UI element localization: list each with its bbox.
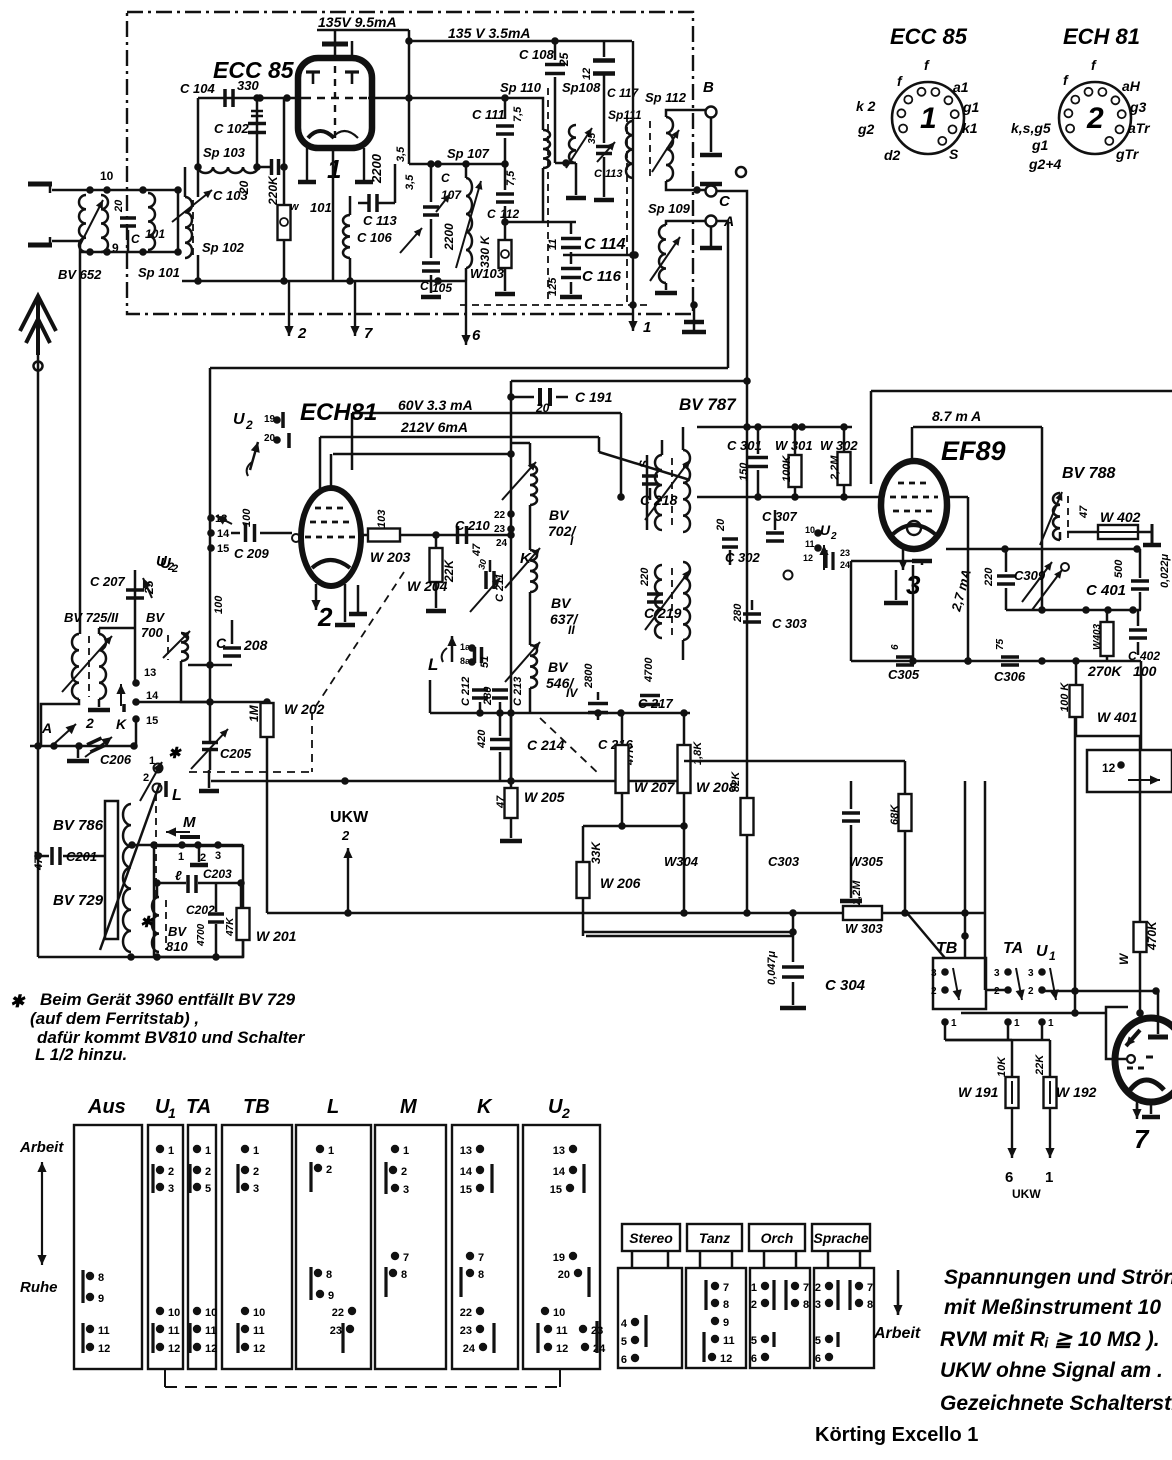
svg-text:8: 8 <box>867 1299 873 1311</box>
svg-text:BV 788: BV 788 <box>1062 465 1115 482</box>
svg-text:7: 7 <box>478 1252 484 1264</box>
svg-text:f: f <box>1063 72 1069 88</box>
svg-text:C: C <box>441 171 450 185</box>
svg-text:d2: d2 <box>884 147 901 163</box>
svg-text:C205: C205 <box>220 746 252 761</box>
svg-text:2: 2 <box>245 418 253 432</box>
svg-text:10: 10 <box>805 525 815 535</box>
svg-text:4: 4 <box>621 1318 628 1330</box>
svg-text:Sprache: Sprache <box>813 1230 868 1246</box>
svg-text:C 219: C 219 <box>644 605 682 621</box>
svg-text:C 103: C 103 <box>213 188 248 203</box>
svg-text:Sp 112: Sp 112 <box>645 90 687 105</box>
svg-text:10: 10 <box>553 1307 565 1319</box>
svg-text:W 205: W 205 <box>524 789 565 805</box>
svg-text:M: M <box>183 814 196 831</box>
svg-text:1: 1 <box>253 1145 259 1157</box>
svg-text:C 213: C 213 <box>512 677 524 706</box>
svg-text:C 217: C 217 <box>638 696 673 711</box>
svg-text:420: 420 <box>476 729 488 749</box>
svg-text:8: 8 <box>803 1299 809 1311</box>
svg-text:15: 15 <box>550 1184 562 1196</box>
svg-text:6: 6 <box>815 1353 821 1365</box>
svg-text:✱: ✱ <box>140 914 154 931</box>
svg-text:(auf dem Ferritstab) ,: (auf dem Ferritstab) , <box>30 1009 199 1028</box>
svg-text:220: 220 <box>639 567 651 587</box>
svg-text:1: 1 <box>1049 949 1056 963</box>
svg-text:f: f <box>897 73 903 89</box>
svg-text:3: 3 <box>215 850 221 862</box>
svg-text:5: 5 <box>205 1183 211 1195</box>
svg-text:47: 47 <box>471 543 483 557</box>
svg-text:C 111: C 111 <box>472 107 505 122</box>
svg-text:2: 2 <box>401 1166 407 1178</box>
svg-text:20: 20 <box>558 1269 570 1281</box>
svg-text:20: 20 <box>715 518 727 532</box>
svg-text:10: 10 <box>205 1307 217 1319</box>
svg-text:3: 3 <box>1028 968 1034 979</box>
svg-text:12: 12 <box>98 1343 110 1355</box>
svg-text:UKW: UKW <box>1012 1187 1041 1201</box>
svg-text:L 1/2 hinzu.: L 1/2 hinzu. <box>35 1045 127 1064</box>
svg-text:1: 1 <box>1045 1169 1053 1186</box>
svg-text:C 106: C 106 <box>357 230 392 245</box>
svg-text:C 307: C 307 <box>762 509 797 524</box>
svg-text:L: L <box>327 1096 339 1118</box>
svg-text:11: 11 <box>98 1325 110 1337</box>
svg-text:13: 13 <box>144 667 156 679</box>
svg-text:C303: C303 <box>768 854 800 869</box>
svg-text:2: 2 <box>297 325 307 342</box>
svg-text:12: 12 <box>720 1353 732 1365</box>
svg-text:8.7 m A: 8.7 m A <box>932 408 981 424</box>
svg-text:220: 220 <box>983 567 995 587</box>
svg-text:10K: 10K <box>996 1056 1008 1077</box>
svg-text:W103: W103 <box>470 266 505 281</box>
svg-text:C 108: C 108 <box>519 47 554 62</box>
svg-text:135V 9.5mA: 135V 9.5mA <box>318 14 397 30</box>
svg-text:2: 2 <box>317 602 333 632</box>
svg-text:35: 35 <box>587 132 598 144</box>
svg-text:1: 1 <box>1014 1018 1020 1029</box>
svg-text:47: 47 <box>1078 505 1090 519</box>
svg-text:M: M <box>400 1096 418 1118</box>
svg-text:U: U <box>233 411 245 428</box>
svg-text:1: 1 <box>920 102 937 135</box>
svg-text:68K: 68K <box>889 804 901 825</box>
svg-text:C 114: C 114 <box>584 236 626 253</box>
svg-text:2: 2 <box>85 715 94 731</box>
svg-text:Sp 102: Sp 102 <box>202 240 245 255</box>
svg-text:100K: 100K <box>781 455 793 482</box>
svg-text:101: 101 <box>310 200 332 215</box>
svg-text:W 207: W 207 <box>634 779 676 795</box>
svg-text:12: 12 <box>556 1343 568 1355</box>
svg-text:330 K: 330 K <box>478 235 492 268</box>
svg-text:3: 3 <box>994 968 1000 979</box>
svg-text:20: 20 <box>113 199 125 213</box>
svg-text:7,5: 7,5 <box>512 106 524 122</box>
svg-text:W 204: W 204 <box>407 578 448 594</box>
svg-text:U: U <box>820 522 831 538</box>
svg-text:B: B <box>703 79 714 96</box>
svg-text:C: C <box>719 193 731 210</box>
svg-text:60V 3.3 mA: 60V 3.3 mA <box>398 397 473 413</box>
svg-text:Beim Gerät 3960 entfällt BV 7: Beim Gerät 3960 entfällt BV 729 <box>40 990 296 1009</box>
svg-text:C 209: C 209 <box>234 546 269 561</box>
svg-text:7: 7 <box>803 1282 809 1294</box>
svg-text:12: 12 <box>205 1343 217 1355</box>
svg-text:C 304: C 304 <box>825 977 866 994</box>
svg-text:TA: TA <box>186 1096 211 1118</box>
svg-text:1: 1 <box>951 1018 957 1029</box>
svg-text:C 102: C 102 <box>214 121 249 136</box>
svg-text:Ruhe: Ruhe <box>20 1279 58 1296</box>
svg-text:2,2M: 2,2M <box>829 455 841 481</box>
svg-text:C 214: C 214 <box>527 737 565 753</box>
svg-text:12: 12 <box>581 68 593 80</box>
svg-text:33K: 33K <box>589 841 603 864</box>
svg-text:C 117: C 117 <box>607 86 639 100</box>
svg-text:a1: a1 <box>953 79 969 95</box>
svg-text:W305: W305 <box>849 854 884 869</box>
svg-text:10: 10 <box>168 1307 180 1319</box>
svg-text:C 104: C 104 <box>180 81 215 96</box>
svg-text:BV: BV <box>146 610 165 625</box>
svg-text:C201: C201 <box>66 849 97 864</box>
svg-text:13: 13 <box>460 1145 472 1157</box>
svg-text:100: 100 <box>241 508 253 527</box>
svg-text:6: 6 <box>472 327 481 344</box>
svg-text:4700: 4700 <box>643 657 655 683</box>
svg-text:w: w <box>290 201 300 213</box>
svg-text:4700: 4700 <box>196 923 207 947</box>
svg-text:C: C <box>131 232 140 246</box>
svg-text:EF89: EF89 <box>941 436 1006 466</box>
svg-text:Sp 107: Sp 107 <box>447 146 490 161</box>
svg-text:L: L <box>172 787 182 804</box>
svg-text:W 203: W 203 <box>370 549 411 565</box>
svg-text:12: 12 <box>168 1343 180 1355</box>
svg-text:0,047μ: 0,047μ <box>766 950 778 985</box>
svg-text:6: 6 <box>621 1354 627 1366</box>
svg-text:Sp 109: Sp 109 <box>648 201 691 216</box>
svg-text:W 206: W 206 <box>600 875 641 891</box>
svg-text:500: 500 <box>1113 559 1125 578</box>
svg-text:C 301: C 301 <box>727 438 762 453</box>
svg-text:6: 6 <box>751 1353 757 1365</box>
svg-text:TA: TA <box>1003 940 1023 957</box>
svg-text:BV: BV <box>168 924 187 939</box>
svg-text:2: 2 <box>751 1299 757 1311</box>
svg-text:208: 208 <box>243 637 268 653</box>
svg-text:47K: 47K <box>225 917 236 937</box>
svg-text:23: 23 <box>330 1325 342 1337</box>
svg-text:g2: g2 <box>857 121 875 137</box>
svg-text:12: 12 <box>253 1343 265 1355</box>
svg-text:125: 125 <box>547 277 559 296</box>
svg-text:2200: 2200 <box>369 153 384 184</box>
svg-text:25: 25 <box>557 52 571 67</box>
svg-text:C306: C306 <box>994 669 1026 684</box>
svg-text:2800: 2800 <box>583 663 595 689</box>
svg-text:Orch: Orch <box>761 1230 794 1246</box>
svg-text:W 401: W 401 <box>1097 709 1138 725</box>
svg-text:24: 24 <box>593 1343 606 1355</box>
svg-text:W403: W403 <box>1092 623 1103 650</box>
svg-text:2: 2 <box>326 1164 332 1176</box>
svg-text:24: 24 <box>463 1343 476 1355</box>
svg-text:Sp108: Sp108 <box>562 80 601 95</box>
svg-text:Sp111: Sp111 <box>608 108 642 122</box>
svg-text:IV: IV <box>566 686 578 700</box>
svg-text:13: 13 <box>553 1145 565 1157</box>
svg-text:W 191: W 191 <box>958 1084 999 1100</box>
svg-text:aTr: aTr <box>1128 120 1151 136</box>
svg-text:ℓ: ℓ <box>175 868 182 883</box>
svg-text:BV: BV <box>549 507 570 523</box>
svg-text:11: 11 <box>253 1325 265 1337</box>
svg-text:BV 786: BV 786 <box>53 817 104 834</box>
svg-text:2,7 mA: 2,7 mA <box>948 568 974 614</box>
svg-text:212V 6mA: 212V 6mA <box>400 419 468 435</box>
svg-text:9: 9 <box>328 1290 334 1302</box>
svg-text:U: U <box>156 553 168 570</box>
svg-text:k1: k1 <box>962 120 978 136</box>
svg-text:✱: ✱ <box>168 745 182 762</box>
svg-text:810: 810 <box>166 939 188 954</box>
svg-text:470K: 470K <box>1145 920 1159 951</box>
svg-text:330: 330 <box>237 78 259 93</box>
svg-text:10: 10 <box>253 1307 265 1319</box>
svg-text:ECH81: ECH81 <box>300 399 377 426</box>
svg-text:Tanz: Tanz <box>699 1230 730 1246</box>
svg-text:aH: aH <box>1122 78 1141 94</box>
svg-text:3,5: 3,5 <box>404 174 416 190</box>
svg-text:14: 14 <box>460 1166 473 1178</box>
svg-text:23: 23 <box>460 1325 472 1337</box>
svg-text:W: W <box>1117 952 1131 965</box>
svg-text:22: 22 <box>460 1307 472 1319</box>
svg-text:14: 14 <box>146 690 159 702</box>
svg-text:8: 8 <box>401 1269 407 1281</box>
svg-text:2: 2 <box>143 772 149 784</box>
svg-text:Sp 103: Sp 103 <box>203 145 246 160</box>
svg-text:Sp 110: Sp 110 <box>500 80 542 95</box>
svg-text:C305: C305 <box>888 667 920 682</box>
svg-text:g3: g3 <box>1129 99 1147 115</box>
svg-text:7: 7 <box>867 1282 873 1294</box>
svg-text:Stereo: Stereo <box>629 1230 673 1246</box>
svg-text:24: 24 <box>496 538 508 549</box>
svg-text:3,5: 3,5 <box>395 146 407 162</box>
svg-text:✱: ✱ <box>10 992 26 1011</box>
svg-text:8: 8 <box>326 1269 332 1281</box>
svg-text:RVM mit Rᵢ ≧ 10 MΩ ).: RVM mit Rᵢ ≧ 10 MΩ ). <box>940 1328 1160 1351</box>
svg-text:8: 8 <box>478 1269 484 1281</box>
svg-text:C206: C206 <box>100 752 132 767</box>
svg-text:8: 8 <box>723 1299 729 1311</box>
svg-text:A: A <box>41 720 52 736</box>
svg-text:1: 1 <box>178 851 184 863</box>
svg-text:W 192: W 192 <box>1056 1084 1097 1100</box>
svg-text:100: 100 <box>1133 663 1157 679</box>
svg-text:11: 11 <box>547 239 559 250</box>
svg-text:2: 2 <box>200 852 206 864</box>
svg-text:2: 2 <box>815 1282 821 1294</box>
svg-text:0,022μ: 0,022μ <box>1159 553 1171 588</box>
svg-text:UKW ohne Signal am .: UKW ohne Signal am . <box>940 1359 1163 1382</box>
svg-text:W 303: W 303 <box>845 921 883 936</box>
svg-text:f: f <box>924 57 930 73</box>
svg-text:2: 2 <box>561 1105 570 1121</box>
svg-text:1: 1 <box>643 319 651 336</box>
svg-text:C 116: C 116 <box>582 268 622 285</box>
svg-text:2: 2 <box>994 986 1000 997</box>
svg-text:7: 7 <box>723 1282 729 1294</box>
svg-text:7,5: 7,5 <box>505 170 517 186</box>
svg-text:k 2: k 2 <box>856 98 876 114</box>
svg-text:280: 280 <box>732 603 744 623</box>
svg-text:U: U <box>548 1096 563 1118</box>
svg-text:C 211: C 211 <box>494 573 506 602</box>
svg-text:270K: 270K <box>1087 663 1122 679</box>
svg-text:C 218: C 218 <box>640 492 678 508</box>
svg-text:1: 1 <box>168 1145 174 1157</box>
svg-text:15: 15 <box>146 715 158 727</box>
svg-text:W 402: W 402 <box>1100 509 1141 525</box>
svg-text:g2+4: g2+4 <box>1028 156 1062 172</box>
svg-text:W304: W304 <box>664 854 699 869</box>
svg-text:2: 2 <box>1086 102 1104 135</box>
svg-text:BV 787: BV 787 <box>679 395 737 414</box>
svg-text:gTr: gTr <box>1115 146 1140 162</box>
svg-text:1: 1 <box>328 1145 334 1157</box>
svg-text:S: S <box>637 460 651 468</box>
svg-text:5: 5 <box>815 1335 821 1347</box>
svg-text:ECH 81: ECH 81 <box>1063 24 1140 49</box>
svg-text:6: 6 <box>890 644 901 650</box>
svg-text:7: 7 <box>403 1252 409 1264</box>
svg-text:7: 7 <box>1134 1124 1150 1154</box>
svg-text:24: 24 <box>840 560 850 570</box>
svg-text:9: 9 <box>723 1317 729 1329</box>
svg-text:135 V 3.5mA: 135 V 3.5mA <box>448 25 531 41</box>
svg-text:II: II <box>568 623 575 637</box>
svg-text:5: 5 <box>751 1335 757 1347</box>
svg-text:3: 3 <box>253 1183 259 1195</box>
svg-text:C 113: C 113 <box>363 213 397 228</box>
svg-text:2: 2 <box>341 828 350 843</box>
svg-text:1: 1 <box>205 1145 211 1157</box>
svg-text:11: 11 <box>723 1335 735 1347</box>
svg-text:Körting Excello 1: Körting Excello 1 <box>815 1424 978 1446</box>
svg-text:100: 100 <box>213 595 225 614</box>
svg-text:1: 1 <box>1048 1018 1054 1029</box>
svg-text:C: C <box>487 207 496 221</box>
svg-text:C 207: C 207 <box>90 574 125 589</box>
svg-text:C 401: C 401 <box>1086 582 1126 599</box>
svg-text:UKW: UKW <box>330 809 369 826</box>
svg-text:23: 23 <box>494 524 506 535</box>
svg-text:15: 15 <box>460 1184 472 1196</box>
svg-text:30: 30 <box>476 558 488 570</box>
svg-text:2: 2 <box>167 561 174 573</box>
svg-text:BV 725/II: BV 725/II <box>64 610 119 625</box>
svg-text:15: 15 <box>217 543 229 555</box>
svg-text:11: 11 <box>205 1325 217 1337</box>
svg-text:f: f <box>1091 57 1097 73</box>
svg-text:2: 2 <box>1028 986 1034 997</box>
svg-text:W 201: W 201 <box>256 928 297 944</box>
svg-text:2200: 2200 <box>442 223 456 251</box>
svg-text:C203: C203 <box>203 867 232 881</box>
svg-text:6: 6 <box>1005 1169 1013 1186</box>
svg-text:W 302: W 302 <box>820 438 858 453</box>
svg-text:1: 1 <box>751 1282 757 1294</box>
svg-text:BV: BV <box>548 659 569 675</box>
svg-text:11: 11 <box>168 1325 180 1337</box>
svg-text:Spannungen und Strön: Spannungen und Strön <box>944 1266 1172 1289</box>
svg-text:Arbeit: Arbeit <box>19 1139 64 1156</box>
svg-text:TB: TB <box>936 940 957 957</box>
svg-text:22: 22 <box>332 1307 344 1319</box>
svg-text:k,s,g5: k,s,g5 <box>1011 120 1051 136</box>
svg-text:Aus: Aus <box>87 1096 126 1118</box>
svg-text:1: 1 <box>403 1145 409 1157</box>
svg-text:220K: 220K <box>266 175 280 206</box>
svg-text:C 210: C 210 <box>455 518 490 533</box>
svg-text:C 303: C 303 <box>772 616 807 631</box>
svg-text:g1: g1 <box>1031 137 1049 153</box>
svg-text:700: 700 <box>141 625 163 640</box>
svg-text:23: 23 <box>840 548 850 558</box>
svg-text:BV 729: BV 729 <box>53 892 104 909</box>
svg-text:BV: BV <box>551 595 572 611</box>
svg-text:150: 150 <box>738 462 750 481</box>
svg-text:3: 3 <box>403 1184 409 1196</box>
svg-text:11: 11 <box>805 539 815 549</box>
svg-text:637/: 637/ <box>550 611 579 627</box>
svg-text:5: 5 <box>621 1336 627 1348</box>
svg-text:C 191: C 191 <box>575 389 613 405</box>
svg-text:9: 9 <box>98 1293 104 1305</box>
svg-text:3: 3 <box>168 1183 174 1195</box>
svg-text:75: 75 <box>995 638 1006 650</box>
svg-text:22: 22 <box>494 510 506 521</box>
svg-text:3: 3 <box>931 968 937 979</box>
svg-text:S: S <box>949 146 959 162</box>
svg-text:Sp 101: Sp 101 <box>138 265 180 280</box>
svg-text:8: 8 <box>98 1272 104 1284</box>
svg-text:1: 1 <box>168 1105 176 1121</box>
svg-text:103: 103 <box>376 510 388 528</box>
svg-text:K: K <box>116 716 127 732</box>
svg-text:mit Meßinstrument 10: mit Meßinstrument 10 <box>944 1296 1161 1319</box>
svg-text:10: 10 <box>100 169 114 183</box>
svg-text:51: 51 <box>479 656 491 668</box>
svg-text:22K: 22K <box>1034 1054 1046 1076</box>
svg-text:12: 12 <box>803 553 813 563</box>
svg-text:U: U <box>1036 943 1048 960</box>
svg-text:g1: g1 <box>962 99 980 115</box>
svg-text:19: 19 <box>553 1252 565 1264</box>
svg-text:14: 14 <box>553 1166 566 1178</box>
svg-text:7: 7 <box>364 325 373 342</box>
svg-text:3: 3 <box>815 1299 821 1311</box>
svg-text:L: L <box>428 655 438 674</box>
svg-text:1M: 1M <box>247 704 261 722</box>
